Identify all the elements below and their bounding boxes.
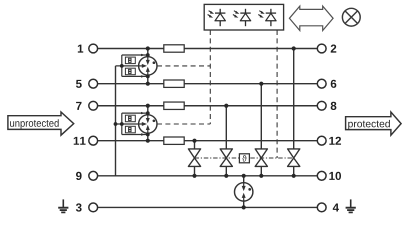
terminal label 5 xyxy=(76,80,82,88)
wire row 5-6 xyxy=(98,83,318,85)
junction F2 fail-safe bottom xyxy=(146,133,150,137)
gas discharge tube F1 (3-electrode) xyxy=(139,57,157,75)
terminal label 9 xyxy=(76,172,82,180)
resistor R2 xyxy=(164,80,184,87)
terminal 7 xyxy=(89,101,98,110)
resistor R3 xyxy=(164,102,184,109)
thermal dash-dot line xyxy=(195,157,294,159)
junction D7 on line 9 xyxy=(292,174,296,178)
lamp symbol xyxy=(342,8,360,26)
wire row 7-8 xyxy=(98,105,318,107)
junction D6 on line 5 xyxy=(259,82,263,86)
junction D5 on line 7 xyxy=(224,104,228,108)
junction F2 fail-safe top xyxy=(146,111,150,115)
terminal 5 xyxy=(89,79,98,88)
LED D2 xyxy=(233,9,251,26)
fail-safe disconnect of F1 xyxy=(116,54,148,78)
fail-safe disconnect of F2 xyxy=(116,112,148,136)
junction F2 top on line 7 xyxy=(146,104,150,108)
terminal 2 xyxy=(317,44,326,53)
indicator box xyxy=(204,4,283,30)
wire TVS D6 vertical xyxy=(260,84,262,176)
LED D1 xyxy=(208,9,226,26)
terminal label 7 xyxy=(76,102,81,110)
wire electrode bus vertical xyxy=(115,66,117,176)
terminal label 11 xyxy=(74,137,86,145)
junction F3 top on line 9 xyxy=(242,174,246,178)
wire row 11-12 xyxy=(98,140,318,142)
terminal 4 xyxy=(317,203,326,212)
terminal label 10 xyxy=(329,172,341,180)
suppressor diode D7 xyxy=(288,149,300,167)
resistor R1 xyxy=(164,45,184,52)
terminal label 1 xyxy=(78,45,83,53)
junction F2 electrode tap on bracket xyxy=(120,122,124,126)
monitor dashed line from GDT F2 xyxy=(157,123,210,125)
wire GDT F2 vertical xyxy=(147,106,149,141)
gas discharge tube F3 (2-electrode) xyxy=(235,183,253,201)
junction D4 on line 11 xyxy=(192,139,196,143)
wire GDT F3 vertical xyxy=(243,176,245,208)
junction F1 bottom on line 5 xyxy=(146,82,150,86)
thermal disconnect box xyxy=(239,154,249,163)
wire TVS D4 vertical xyxy=(194,141,196,176)
wire TVS D5 vertical xyxy=(225,106,227,176)
ground symbol left (PE) xyxy=(58,199,68,212)
junction F1 electrode tap xyxy=(120,64,124,68)
unprotected flow arrow xyxy=(8,112,74,135)
bidirectional arrow xyxy=(289,6,333,30)
terminal label 4 xyxy=(333,204,339,212)
terminal label 3 xyxy=(76,203,82,211)
terminal 1 xyxy=(89,44,98,53)
terminal 11 xyxy=(89,136,98,145)
junction F1 fail-safe top xyxy=(146,53,150,57)
terminal label 6 xyxy=(331,80,337,88)
suppressor diode D4 xyxy=(188,149,200,167)
junction F1 fail-safe bottom xyxy=(146,75,150,79)
suppressor diode D6 xyxy=(255,149,267,167)
wire row 9-10 xyxy=(98,175,318,177)
LED D3 xyxy=(258,9,276,26)
monitor dashed line LED3 to thermal line xyxy=(276,30,278,158)
junction D5 on line 9 xyxy=(224,174,228,178)
junction D7 on line 1 xyxy=(292,46,296,50)
terminal label 12 xyxy=(329,137,341,145)
terminal label 2 xyxy=(331,45,337,53)
terminal 6 xyxy=(317,79,326,88)
junction F3 bottom on line 3 xyxy=(242,205,246,209)
wire row 1-2 xyxy=(98,48,318,50)
terminal 3 xyxy=(89,203,98,212)
protected flow arrow xyxy=(346,112,402,135)
terminal label 8 xyxy=(331,102,337,110)
suppressor diode D5 xyxy=(220,149,232,167)
monitor dashed line LED1 to GDT F2 xyxy=(209,30,211,124)
junction F2 electrode tap on bus xyxy=(114,122,118,126)
junction D6 on line 9 xyxy=(259,174,263,178)
terminal 10 xyxy=(317,171,326,180)
terminal 12 xyxy=(317,136,326,145)
junction F2 bottom on line 11 xyxy=(146,139,150,143)
terminal 9 xyxy=(89,171,98,180)
junction F1 top on line 1 xyxy=(146,46,150,50)
wire TVS D7 vertical xyxy=(293,49,295,176)
resistor R4 xyxy=(164,137,184,144)
wire row 3-4 xyxy=(98,206,318,208)
wire GDT F1 vertical xyxy=(147,49,149,84)
junction D4 on line 9 xyxy=(192,174,196,178)
monitor dashed line from GDT F1 xyxy=(157,65,210,67)
terminal 8 xyxy=(317,101,326,110)
gas discharge tube F2 (3-electrode) xyxy=(139,115,157,133)
ground symbol right (PE) xyxy=(346,199,356,212)
